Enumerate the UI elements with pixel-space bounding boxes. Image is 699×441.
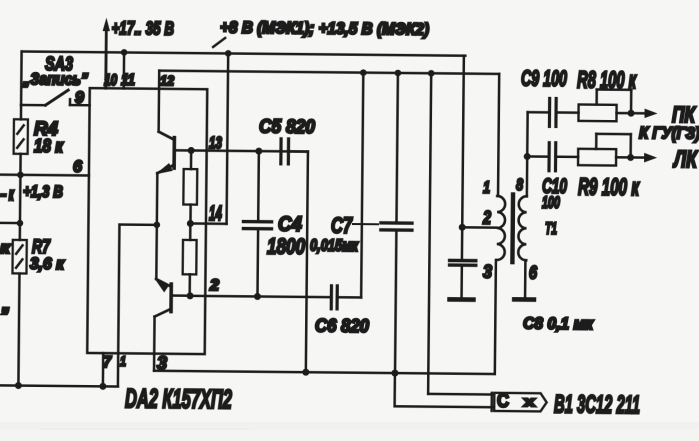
svg-text:R8 100 к: R8 100 к xyxy=(577,68,637,95)
capacitor C4 xyxy=(243,151,272,297)
capacitor C6 xyxy=(331,286,361,309)
wire T1 pin8 column xyxy=(526,112,529,196)
svg-text:С7: С7 xyxy=(331,213,353,238)
wire lower branch xyxy=(527,155,549,158)
wire left rail corner xyxy=(20,51,23,104)
svg-text:С6 820: С6 820 xyxy=(315,316,369,337)
wire top supply rail xyxy=(22,51,465,55)
wire pin14 column xyxy=(227,53,229,223)
connector B1 box xyxy=(494,393,547,412)
svg-text:ПК: ПК xyxy=(672,102,696,127)
svg-text:0,015мк: 0,015мк xyxy=(310,236,359,255)
node connector col xyxy=(428,70,435,77)
svg-text:R9 100 к: R9 100 к xyxy=(578,175,640,202)
svg-text:2: 2 xyxy=(209,277,220,294)
label tick +8V xyxy=(213,38,225,47)
node pin14 rail xyxy=(225,50,232,57)
transformer core xyxy=(510,195,515,263)
transformer T1 primary xyxy=(497,196,506,260)
svg-text:Т1: Т1 xyxy=(545,219,557,238)
wire T1 pin3 column xyxy=(495,260,496,374)
wire C6 column xyxy=(361,73,363,298)
node left stub xyxy=(17,220,24,227)
pin 11 stub xyxy=(123,52,126,88)
wire T1 pin1 column xyxy=(498,74,499,196)
transistor Q1 xyxy=(155,132,191,175)
svg-text:7: 7 xyxy=(103,354,113,371)
transformer T1 secondary xyxy=(518,196,527,260)
wire connector lower lead xyxy=(395,373,493,407)
wire bottom rail xyxy=(154,371,494,374)
svg-text:+17.. 35 В: +17.. 35 В xyxy=(111,17,174,39)
node C4 bottom xyxy=(254,293,261,300)
svg-text:1800: 1800 xyxy=(267,234,306,259)
wire pin6 net xyxy=(0,173,89,176)
node pin11 rail xyxy=(121,49,128,56)
svg-text:11: 11 xyxy=(121,72,135,89)
capacitor C10 xyxy=(549,143,578,171)
svg-text:13: 13 xyxy=(209,133,223,152)
label C7 tick xyxy=(353,223,378,225)
wire Q1 emitter down xyxy=(156,173,159,225)
arrow LK xyxy=(644,153,657,163)
pin 12 line Q1 collector xyxy=(157,71,160,132)
svg-text:ЛК: ЛК xyxy=(672,147,698,173)
IC DA2 box xyxy=(87,88,207,354)
node R8 out xyxy=(628,110,635,117)
wire left rail R4-R7 xyxy=(19,175,22,240)
wire T1 pin6 to ground xyxy=(524,260,527,297)
svg-text:В1 3С12 211: В1 3С12 211 xyxy=(554,391,640,420)
svg-text:18 к: 18 к xyxy=(34,136,64,156)
arrow PK xyxy=(644,109,657,119)
node rail C5 xyxy=(302,369,309,376)
svg-text:8: 8 xyxy=(516,175,524,194)
switch SA3 xyxy=(21,90,90,106)
svg-text:3: 3 xyxy=(483,262,492,282)
svg-text:6: 6 xyxy=(529,263,538,283)
wire upper branch xyxy=(528,111,550,114)
wire C5 column xyxy=(306,152,308,373)
wire emitter rail to pin1 xyxy=(118,224,157,353)
ground bar C8 xyxy=(450,297,474,302)
capacitor C8 xyxy=(449,260,476,298)
resistor R4 xyxy=(13,105,28,175)
svg-text:6: 6 xyxy=(73,157,83,176)
svg-text:С9 100: С9 100 xyxy=(521,66,568,91)
node tap2 xyxy=(459,224,466,231)
svg-text:2: 2 xyxy=(482,208,491,228)
svg-text:‒ к: ‒ к xyxy=(0,184,15,204)
svg-text:+8 В (МЭК1); +13,5 В (МЭК2): +8 В (МЭК1); +13,5 В (МЭК2) xyxy=(220,19,429,39)
wire connector upper lead xyxy=(428,393,492,396)
svg-text:14: 14 xyxy=(209,202,222,225)
wire Q2 collector pin3 xyxy=(153,317,156,371)
wire pin 14 xyxy=(190,222,226,225)
node C4 top xyxy=(255,148,262,155)
svg-text:”: ” xyxy=(0,303,10,328)
node pin7 xyxy=(99,383,106,390)
wire connector column xyxy=(428,73,431,394)
wire y73 net xyxy=(159,71,499,74)
svg-text:3: 3 xyxy=(157,353,167,373)
wire pin13 net xyxy=(191,150,308,151)
svg-text:9: 9 xyxy=(75,88,85,107)
svg-text:С8 0,1 мк: С8 0,1 мк xyxy=(523,314,595,334)
capacitor C7 xyxy=(380,73,414,373)
svg-text:10: 10 xyxy=(104,72,118,89)
svg-text:12: 12 xyxy=(160,72,174,88)
svg-text:DA2 К157ХП2: DA2 К157ХП2 xyxy=(125,383,232,414)
node Q1 base chain xyxy=(188,147,195,154)
wire Q2 emitter up xyxy=(155,225,158,279)
node rail C7 xyxy=(391,370,398,377)
svg-text:1: 1 xyxy=(120,353,126,369)
svg-text:С4: С4 xyxy=(278,213,303,236)
capacitor C5 xyxy=(281,139,308,164)
transistor Q2 xyxy=(154,278,191,317)
node C6 col xyxy=(360,69,367,76)
svg-text:С: С xyxy=(497,390,509,412)
connector bracket xyxy=(490,393,493,411)
svg-text:100: 100 xyxy=(542,193,561,212)
node chain mid pin14 xyxy=(187,220,194,227)
node R7 bottom xyxy=(15,382,22,389)
wire pins 7 1 net xyxy=(0,385,118,386)
node emitter rail xyxy=(154,222,161,229)
node Q2 base chain xyxy=(187,292,194,299)
wire tap2 column xyxy=(462,56,464,261)
svg-text:х: х xyxy=(524,393,536,409)
svg-text:К ГУ(ГЗ): К ГУ(ГЗ) xyxy=(639,124,699,143)
svg-text:1: 1 xyxy=(483,178,490,197)
wire left stub xyxy=(0,222,20,225)
node R9 out xyxy=(627,154,634,161)
wire pin2 net xyxy=(190,296,331,297)
resistor internal lower xyxy=(182,223,196,295)
node branch split xyxy=(524,153,531,160)
svg-text:к: к xyxy=(0,238,12,257)
resistor R9 trimmer xyxy=(578,134,646,166)
power arrow +17..35V xyxy=(104,28,107,89)
capacitor C9 xyxy=(549,98,578,126)
resistor R8 trimmer xyxy=(578,89,646,121)
wire tap2 to primary xyxy=(462,226,496,229)
node C7 top xyxy=(395,70,402,77)
pin 7 stub xyxy=(102,353,105,386)
pin 1 stub xyxy=(117,353,120,386)
resistor internal upper xyxy=(183,150,197,223)
svg-text:С5 820: С5 820 xyxy=(259,116,315,139)
node pin6/R4 xyxy=(17,172,24,179)
svg-text:„Запись”: „Запись” xyxy=(22,69,88,89)
svg-text:+1,3 В: +1,3 В xyxy=(23,182,63,201)
svg-text:3,6 к: 3,6 к xyxy=(30,254,66,273)
pin 10 stub xyxy=(105,52,108,88)
ground bar pin6 xyxy=(514,297,534,302)
resistor R7 xyxy=(11,240,26,386)
